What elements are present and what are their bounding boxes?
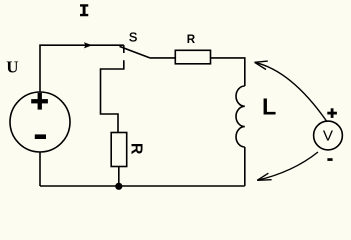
svg-text:S: S (129, 31, 137, 45)
plus terminal of U1 (31, 93, 48, 110)
current arrow (84, 42, 92, 48)
svg-text:U: U (6, 57, 18, 76)
wire: bottom-left riser to U1 (39, 152, 41, 186)
wire: R1 to top-right corner, down to inductor (211, 58, 245, 86)
svg-text:L: L (262, 94, 276, 120)
wire: branch from switch post down to resistor R2 (101, 60, 124, 132)
svg-text:I: I (79, 2, 90, 22)
wire: R2 to bottom rail (118, 167, 120, 187)
inductor L1 (236, 86, 245, 147)
wire: switch to resistor R1 (150, 57, 176, 59)
junction node (115, 183, 122, 190)
measurement arrow to bottom-right corner (257, 152, 318, 180)
resistor R2 (111, 133, 127, 167)
minus terminal of U1 (35, 134, 46, 139)
resistor R1 (175, 50, 210, 64)
svg-text:R: R (187, 33, 196, 46)
voltage source U1 (10, 92, 70, 152)
switch S: left post stub (123, 45, 125, 53)
plus terminal of V1 (327, 108, 337, 118)
wire: U top to top-left corner and across to switch (40, 45, 124, 92)
wire: inductor to bottom-right corner (244, 147, 246, 186)
switch S: blade (120, 46, 150, 57)
wire: bottom rail (40, 185, 245, 187)
voltmeter V1 (314, 121, 343, 150)
svg-text:V: V (323, 127, 334, 144)
minus terminal of V1 (327, 158, 332, 161)
svg-text:R: R (128, 143, 145, 155)
measurement arrow to top-right corner (255, 62, 327, 121)
